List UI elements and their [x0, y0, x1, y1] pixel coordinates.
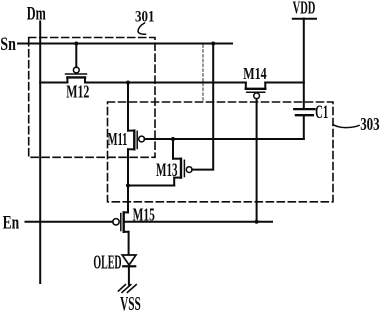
wire M11 source to M15 drain — [127, 149, 129, 212]
wire OLED cathode to ground — [128, 266, 130, 284]
svg-text:M14: M14 — [243, 64, 267, 83]
svg-text:M13: M13 — [156, 161, 178, 181]
wire M13 gate to Sn — [192, 44, 213, 170]
transistor M13 (PMOS, vertical, gate right) — [128, 139, 192, 186]
ground symbol VSS — [118, 285, 136, 293]
svg-text:VSS: VSS — [120, 294, 141, 311]
scan line Sn (horizontal wire) — [18, 43, 232, 45]
leader line to 301 — [138, 23, 146, 34]
svg-text:Sn: Sn — [0, 35, 16, 55]
wire rail: Dm to M12 — [40, 82, 67, 84]
dashed box 303 — [108, 102, 334, 202]
junction dot En / M14 gate — [255, 220, 259, 224]
transistor M14 (PMOS, gate on bottom) — [246, 83, 265, 99]
svg-text:En: En — [3, 213, 20, 234]
svg-text:OLED: OLED — [93, 252, 121, 273]
leader line to 303 — [333, 125, 359, 128]
wire gate net: M11 gate to C1 bottom — [145, 138, 304, 140]
wire VDD vertical — [303, 19, 305, 110]
emission line En (horizontal wire) — [26, 221, 113, 223]
transistor M12 (PMOS, gate on top) — [66, 67, 87, 82]
dashed box 301 — [29, 38, 155, 158]
transistor M15 (PMOS, horizontal, gate left) — [113, 212, 129, 254]
junction dot Sn / M12 gate — [74, 42, 78, 46]
VDD supply bar — [293, 18, 316, 20]
capacitor C1 — [294, 109, 314, 139]
faint dotted guide line — [202, 45, 204, 101]
svg-text:M11: M11 — [108, 129, 128, 149]
wire rail: M14 to VDD line — [265, 82, 304, 84]
svg-text:303: 303 — [360, 114, 380, 134]
transistor M11 (PMOS, vertical, gate right) — [128, 83, 145, 150]
junction dot rail / M11 drain — [126, 81, 130, 85]
svg-text:M12: M12 — [66, 81, 89, 101]
data line Dm (vertical wire) — [39, 22, 41, 284]
junction dot M11 source / M13 source — [126, 184, 130, 188]
svg-text:Dm: Dm — [27, 3, 46, 24]
wire M14 gate to En line — [256, 99, 258, 222]
diode OLED — [122, 255, 136, 266]
svg-text:VDD: VDD — [293, 0, 316, 18]
emission line En right segment — [125, 221, 272, 223]
junction dot Sn / M13 gate branch — [211, 42, 215, 46]
wire M12 gate to Sn — [75, 44, 77, 68]
svg-text:C1: C1 — [315, 103, 328, 123]
junction dot gate net / M13 drain — [171, 137, 175, 141]
wire rail: M12 to M14 — [85, 82, 246, 84]
